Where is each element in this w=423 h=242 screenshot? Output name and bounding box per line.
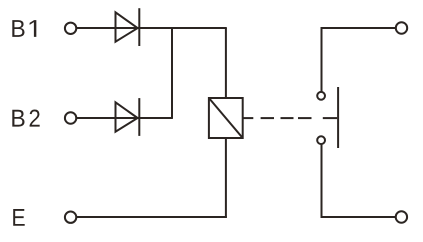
wire top contact to terminal 1: [322, 28, 396, 91]
mechanical link (dashed) from K1 to contact actuator: [243, 117, 337, 119]
terminal 2 (bottom right): [396, 211, 407, 222]
terminal 1 (top right): [396, 22, 407, 33]
terminal B2: [65, 112, 76, 123]
terminal B1: [65, 23, 76, 34]
terminal E: [65, 212, 76, 223]
contact S1: fixed contact (top): [317, 92, 325, 100]
wire bottom contact to terminal 2: [322, 145, 396, 218]
diode D2: [116, 98, 140, 136]
wire node A to relay corner: [172, 27, 227, 29]
wire riser from D2 cathode up to node A: [171, 27, 173, 118]
wire B1 terminal to diode D1: [77, 27, 116, 29]
wire relay coil K1 to E line: [225, 138, 227, 218]
diode D1: [116, 8, 140, 46]
wire D1 cathode to node A: [139, 27, 172, 29]
node label B1: [12, 20, 36, 37]
contact S1: fixed contact (bottom): [317, 136, 325, 144]
relay coil K1: [209, 98, 243, 138]
wire D2 cathode to riser: [139, 117, 173, 119]
wire B2 terminal to diode D2: [77, 117, 116, 119]
node label B2: [12, 110, 39, 127]
wire down into relay coil K1: [225, 28, 227, 99]
contact S1: actuator bar: [337, 87, 339, 148]
node label E: [13, 209, 24, 226]
wire E terminal to relay coil riser: [77, 216, 227, 218]
